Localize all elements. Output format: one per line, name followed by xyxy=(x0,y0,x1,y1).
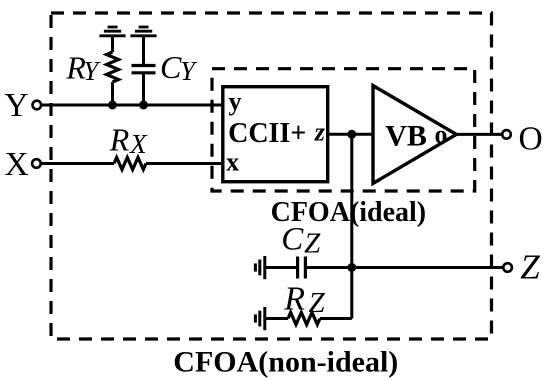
svg-text:CCII+: CCII+ xyxy=(228,118,306,149)
capacitor CZ plates xyxy=(298,257,306,279)
wire Y terminal to y pin xyxy=(41,104,223,107)
wire VB output to O terminal xyxy=(456,133,502,136)
terminal O xyxy=(502,130,511,139)
svg-text:C: C xyxy=(160,49,182,85)
svg-text:R: R xyxy=(109,122,130,158)
svg-text:X: X xyxy=(129,129,148,159)
wire RZ to Z net xyxy=(320,317,352,320)
node junction dot on Y line (RY) xyxy=(108,101,117,110)
CCII+ box U1 xyxy=(223,87,328,182)
svg-text:o: o xyxy=(435,120,448,149)
svg-text:Z: Z xyxy=(309,287,326,319)
ground left of CZ xyxy=(255,256,264,279)
inner dashed box CFOA(ideal) xyxy=(212,69,475,191)
node junction dot z net xyxy=(347,130,356,139)
svg-text:Z: Z xyxy=(520,247,540,286)
svg-text:R: R xyxy=(283,280,305,317)
wire CZ to Z node and Z terminal xyxy=(305,266,503,269)
ground above CY xyxy=(130,27,156,36)
terminal Y xyxy=(33,101,42,110)
svg-text:z: z xyxy=(314,118,326,147)
resistor RY (vertical) xyxy=(107,52,119,82)
svg-text:y: y xyxy=(229,87,242,116)
svg-text:x: x xyxy=(226,148,239,177)
resistor RZ xyxy=(288,313,320,325)
svg-text:CFOA(non-ideal): CFOA(non-ideal) xyxy=(173,345,398,378)
wire X terminal to RX xyxy=(41,162,114,165)
wire RX to x pin xyxy=(146,162,223,165)
wire ground to RZ xyxy=(265,317,288,320)
resistor RX xyxy=(114,158,146,170)
capacitor CY plates xyxy=(132,66,156,73)
terminal X xyxy=(32,159,41,168)
outer dashed box CFOA(non-ideal) xyxy=(51,13,492,339)
wire RY to Y line xyxy=(111,82,114,105)
svg-text:O: O xyxy=(519,121,543,158)
wire ground to CZ xyxy=(265,266,296,269)
ground left of RZ xyxy=(255,307,264,330)
wire ground to CY xyxy=(142,36,145,66)
wire z node down to Z net xyxy=(350,134,353,318)
svg-text:VB: VB xyxy=(385,120,427,153)
wire ground to RY xyxy=(111,36,114,52)
svg-text:Z: Z xyxy=(304,227,321,259)
wire z pin to VB input xyxy=(328,133,373,136)
node junction dot on Y line (CY) xyxy=(139,101,148,110)
terminal Z xyxy=(503,263,512,272)
node junction dot Z line xyxy=(347,263,356,272)
wire CY to Y line xyxy=(142,73,145,105)
svg-text:CFOA(ideal): CFOA(ideal) xyxy=(271,197,427,228)
svg-text:Y: Y xyxy=(4,87,28,124)
svg-text:X: X xyxy=(5,146,29,183)
op-amp buffer VB triangle xyxy=(373,86,456,184)
ground above RY xyxy=(99,27,125,36)
